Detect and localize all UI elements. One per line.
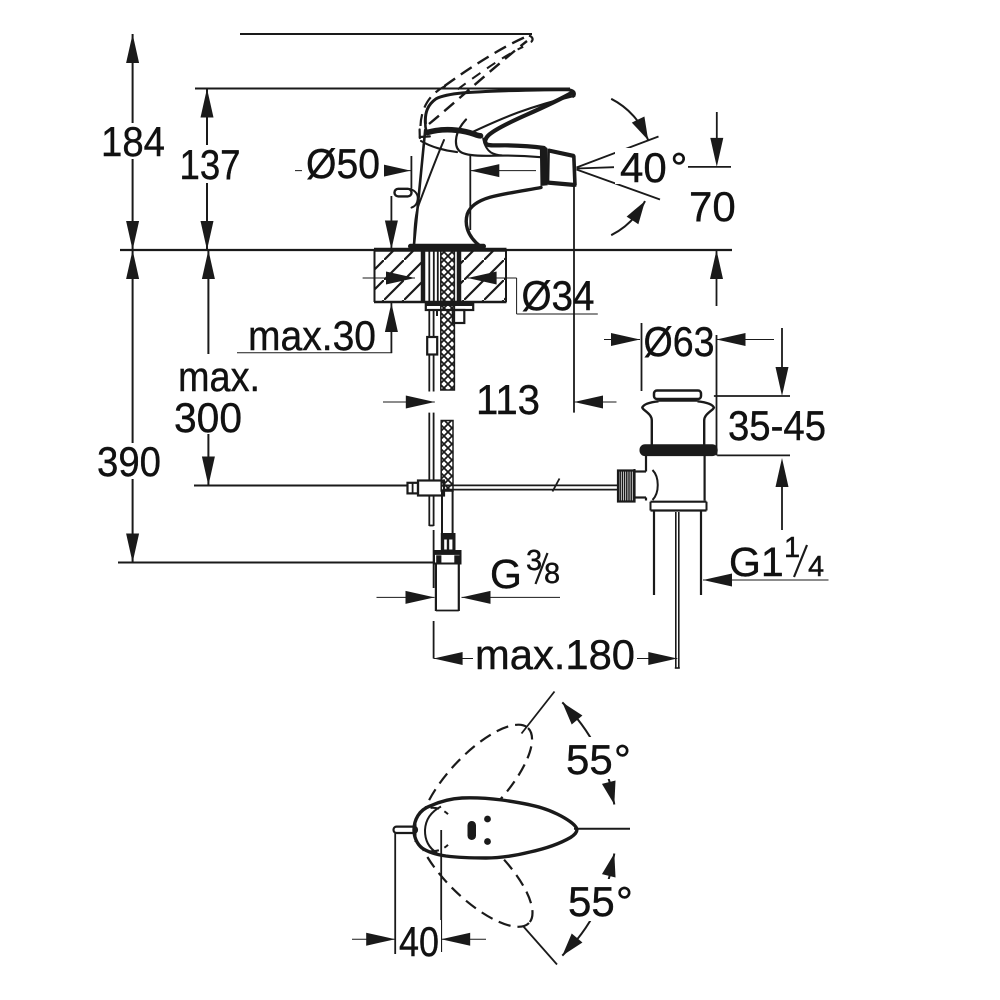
solid handle plan (teardrop) — [414, 798, 577, 858]
hose nut — [434, 551, 461, 564]
Ø63 — [643, 318, 715, 365]
slash of G 3/8 — [536, 553, 548, 584]
tailpipe — [653, 511, 655, 596]
top ref line (handle up tip level) — [240, 33, 532, 35]
G1 1/4 — [729, 532, 824, 585]
svg-text:55: 55 — [566, 736, 613, 783]
extension line from outlet down — [573, 186, 575, 413]
aerator right face thick — [574, 155, 575, 185]
text labels with white background — [94, 118, 826, 965]
G3/8 tube — [435, 564, 437, 612]
left edge — [414, 130, 425, 247]
spray upper line — [577, 137, 659, 168]
centerline right — [574, 828, 630, 830]
svg-text:40: 40 — [620, 144, 667, 191]
skirt right — [698, 401, 714, 445]
svg-text:Ø50: Ø50 — [306, 140, 380, 187]
svg-text:70: 70 — [689, 183, 736, 230]
capsule end dashes over handle — [431, 808, 449, 814]
shank right wall — [457, 248, 462, 303]
svg-text:°: ° — [614, 736, 631, 783]
dim 40 — [394, 832, 396, 954]
svg-text:35-45: 35-45 — [728, 402, 826, 449]
upper dashed edge — [445, 36, 530, 87]
dim Ø63 — [604, 339, 640, 341]
slash of G1 1/4 — [794, 545, 807, 577]
svg-text:137: 137 — [180, 141, 241, 188]
tip arc — [527, 36, 533, 43]
svg-text:1: 1 — [784, 532, 800, 564]
handle left end cap — [425, 123, 427, 132]
svg-text:300: 300 — [174, 394, 242, 441]
horizontal pop-up rod to drain — [444, 484, 618, 486]
thick gap line under handle — [427, 130, 480, 136]
stem — [675, 512, 677, 668]
svg-text:max.30: max.30 — [248, 312, 376, 359]
svg-text:Ø63: Ø63 — [644, 318, 715, 365]
upper 40 arc — [611, 99, 648, 140]
dashed capsule upper (+55) — [404, 709, 549, 859]
plug cap — [654, 391, 701, 400]
svg-text:113: 113 — [476, 376, 540, 423]
knurled nut — [618, 471, 635, 502]
shank inner lines — [428, 250, 430, 303]
ref line at handle tip level (137) — [195, 88, 570, 90]
inner neck line — [414, 140, 444, 241]
slab top edge thick — [374, 248, 507, 252]
svg-text:4: 4 — [808, 551, 824, 583]
G3/8 — [377, 596, 435, 598]
inner arc left end — [425, 807, 441, 854]
55deg lower — [563, 878, 637, 925]
svg-text:G1: G1 — [729, 539, 784, 585]
svg-text:max.: max. — [178, 353, 260, 400]
counter top line — [120, 249, 732, 251]
upper 55 arc — [562, 702, 614, 804]
base bottom thick — [411, 244, 484, 249]
55deg upper — [561, 736, 635, 783]
J-hook inner line at spout root — [483, 139, 502, 156]
svg-text:390: 390 — [97, 438, 161, 485]
max.180 — [434, 658, 473, 660]
aerator body — [548, 150, 575, 185]
shank left wall — [421, 248, 426, 303]
threaded rod (crosshatch) upper — [441, 248, 455, 390]
55 lower axis extension — [523, 926, 557, 965]
pop-up knob left — [395, 189, 412, 197]
rod lower — [428, 413, 430, 481]
svg-text:184: 184 — [101, 118, 165, 165]
hose crimp sleeve — [441, 534, 455, 552]
handle bottom swoosh: tip to root, then spout top edge — [485, 93, 572, 149]
55 upper axis extension — [522, 692, 555, 734]
bottom ref line (390 bottom, hose end) — [118, 562, 433, 564]
spray axis — [577, 167, 615, 168]
mounting nut (right profile) — [453, 310, 465, 323]
rod middle — [428, 355, 430, 392]
inner arc in body — [653, 470, 658, 500]
hatched slab right part — [459, 250, 507, 302]
spray lower line — [577, 170, 661, 200]
G 3/8 — [490, 545, 560, 597]
break tick on rod — [553, 479, 560, 492]
dim 35-45 — [714, 395, 790, 397]
collar — [651, 501, 707, 503]
pivot pin — [394, 827, 418, 833]
svg-text:40: 40 — [399, 918, 439, 965]
dots — [484, 816, 491, 823]
G1 1/4 — [703, 579, 829, 581]
middle dash line — [458, 47, 524, 90]
lower 40 arc — [611, 201, 645, 235]
hose plain section — [441, 491, 443, 534]
base arc — [421, 86, 447, 127]
svg-text:max.180: max.180 — [475, 631, 635, 678]
rod coupler — [427, 337, 437, 355]
pop-up rod clamp — [418, 481, 444, 496]
braided hose (crosshatch) lower — [441, 421, 453, 492]
pop-up rod upper — [428, 310, 430, 337]
svg-text:°: ° — [671, 144, 688, 191]
handle mid curve (near edge) — [471, 96, 575, 133]
handle top silhouette — [425, 90, 574, 123]
svg-text:8: 8 — [544, 558, 560, 590]
lower dashed edge — [429, 41, 527, 124]
slab right edge — [505, 250, 507, 302]
max180 left extension line — [433, 530, 435, 588]
svg-text:°: ° — [616, 878, 633, 925]
svg-text:Ø34: Ø34 — [522, 272, 595, 319]
slab left edge — [374, 250, 376, 302]
svg-text:G: G — [490, 551, 522, 597]
junction ring — [541, 147, 547, 186]
aerator top edge thick — [549, 151, 574, 156]
horseshoe washer under counter — [426, 303, 473, 310]
40deg — [615, 144, 688, 191]
side port — [635, 470, 647, 472]
hatched slab left part — [375, 250, 422, 302]
aerator bottom edge thick — [548, 183, 575, 185]
slot — [468, 821, 477, 840]
gasket — [640, 445, 717, 456]
right silhouette: spout underside to base — [466, 188, 541, 247]
rod below clamp — [428, 496, 430, 527]
max300 bottom ref line (rod level) — [194, 485, 407, 487]
body — [645, 456, 647, 472]
lower 55 arc — [562, 854, 614, 956]
dome left edge and U to spout inner line — [456, 120, 541, 158]
svg-text:55: 55 — [568, 878, 615, 925]
slab bottom edge — [374, 301, 507, 304]
skirt left — [642, 401, 658, 445]
dome outline lower — [421, 141, 457, 152]
Ø50 — [302, 136, 384, 187]
dashed capsule lower (-55) — [400, 797, 549, 944]
40 bottom — [397, 918, 441, 965]
